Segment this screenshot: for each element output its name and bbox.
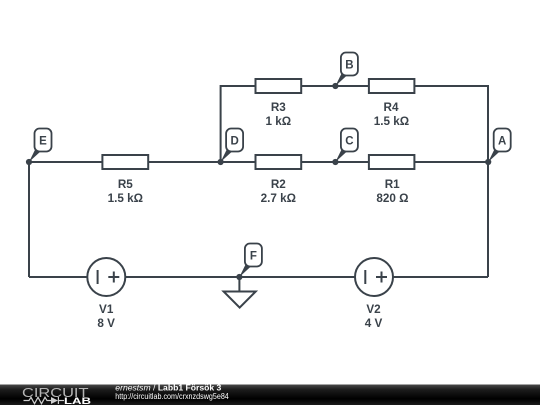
voltage source V2	[355, 258, 393, 296]
svg-text:R4: R4	[384, 101, 399, 114]
svg-text:F: F	[250, 251, 257, 263]
wire right vertical A down	[487, 162, 489, 277]
footer bar	[0, 385, 540, 405]
svg-text:1 kΩ: 1 kΩ	[265, 115, 291, 128]
resistor R4	[369, 79, 415, 93]
wire middle row E to D	[29, 161, 221, 163]
wire top row B to corner A	[335, 86, 488, 162]
svg-text:D: D	[230, 136, 238, 148]
svg-text:2.7 kΩ: 2.7 kΩ	[261, 192, 296, 205]
wire middle row C to A	[335, 161, 488, 163]
svg-text:8 V: 8 V	[97, 317, 115, 330]
svg-text:V1: V1	[99, 303, 114, 316]
wire top row corner to B	[221, 86, 336, 162]
resistor R3	[256, 79, 302, 93]
svg-text:E: E	[39, 136, 47, 148]
svg-text:C: C	[345, 136, 353, 148]
svg-text:4 V: 4 V	[365, 317, 383, 330]
svg-text:R1: R1	[385, 178, 400, 191]
svg-text:R3: R3	[271, 101, 286, 114]
svg-text:B: B	[345, 60, 353, 72]
svg-text:LAB: LAB	[64, 396, 91, 405]
node A flag	[485, 129, 511, 166]
ground	[224, 277, 256, 308]
node D flag	[218, 129, 244, 166]
svg-text:A: A	[498, 136, 506, 148]
svg-text:http://circuitlab.com/crxnzdsw: http://circuitlab.com/crxnzdswg5e84	[115, 392, 229, 401]
node F flag	[236, 244, 262, 281]
node E flag	[26, 129, 52, 166]
node C flag	[332, 129, 358, 166]
resistor R5	[102, 155, 148, 169]
wire left vertical E down	[28, 162, 30, 277]
node B flag	[332, 53, 358, 90]
wire bottom row left	[29, 276, 239, 278]
resistor R2	[256, 155, 302, 169]
svg-text:R2: R2	[271, 178, 286, 191]
svg-text:V2: V2	[366, 303, 381, 316]
svg-text:R5: R5	[118, 178, 133, 191]
voltage source V1	[87, 258, 125, 296]
svg-text:1.5 kΩ: 1.5 kΩ	[108, 192, 143, 205]
svg-text:1.5 kΩ: 1.5 kΩ	[374, 115, 409, 128]
logo resistor zigzag and diode	[24, 397, 65, 404]
wire bottom row right	[239, 276, 488, 278]
resistor R1	[369, 155, 415, 169]
svg-text:820 Ω: 820 Ω	[376, 192, 408, 205]
wire middle row D to C	[221, 161, 336, 163]
